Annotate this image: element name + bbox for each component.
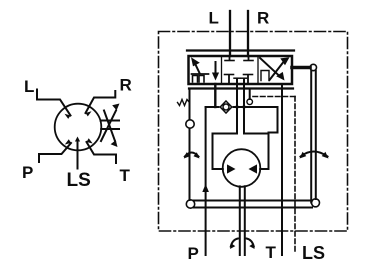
svg-text:P: P — [188, 244, 199, 263]
svg-text:LS: LS — [67, 170, 91, 191]
svg-text:L: L — [24, 77, 34, 96]
svg-text:L: L — [209, 9, 219, 28]
svg-text:R: R — [120, 76, 132, 95]
svg-text:T: T — [120, 166, 131, 185]
svg-text:T: T — [266, 243, 277, 262]
svg-text:P: P — [22, 163, 33, 182]
svg-text:R: R — [257, 9, 269, 28]
svg-text:LS: LS — [302, 243, 325, 263]
